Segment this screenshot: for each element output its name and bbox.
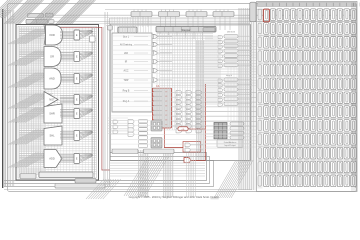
ALU carry box pair — [20, 174, 36, 179]
wire bundle diagonal top-left 1 — [4, 0, 28, 24]
flag block upper — [151, 121, 162, 132]
svg-text:XOR: XOR — [49, 33, 55, 37]
bus loop bottom lines — [4, 180, 206, 182]
ALU SHL unit — [8, 126, 93, 145]
stepper reset box — [203, 28, 215, 32]
control row TMP — [123, 78, 172, 82]
svg-text:IAR: IAR — [124, 52, 128, 55]
wire from box B to right edge — [53, 14, 352, 16]
svg-text:Copyright © 2005 - 2016 by Sie: Copyright © 2005 - 2016 by Siegbert Filb… — [129, 195, 220, 199]
control row Reg A — [123, 99, 172, 103]
wide capsule register lower-left A — [112, 149, 138, 154]
svg-text:Data/Address: Data/Address — [224, 141, 237, 144]
wire ribbon band bottom 1 — [138, 150, 149, 197]
data address label box — [217, 140, 243, 148]
ALU enclosure — [16, 25, 99, 181]
ALU inner border — [18, 27, 97, 179]
svg-text:OR: OR — [50, 55, 54, 59]
wire bundle diagonal far corner — [0, 0, 8, 18]
svg-text:Reg A: Reg A — [123, 100, 130, 103]
svg-text:ADD: ADD — [49, 157, 55, 161]
gate cluster inside red box — [185, 143, 203, 152]
wire ribbon band right upper — [206, 36, 220, 105]
highlighted clock wire horizontal red — [191, 160, 205, 162]
highlighted enable gate red — [184, 158, 190, 163]
ALU bottom bus bar — [55, 184, 105, 189]
register bus-one attach box — [49, 20, 55, 24]
control section vertical wires top — [111, 17, 113, 33]
svg-text:Reg B: Reg B — [123, 90, 130, 93]
bus wires between ALU and control — [102, 27, 104, 180]
stepper output wires — [159, 32, 161, 34]
ALU XOR unit — [8, 25, 93, 45]
wire bundle diagonal top-left 2 — [30, 0, 54, 24]
ALU ADD unit — [8, 150, 93, 168]
control matrix keypad grid — [214, 123, 227, 140]
wire bundle below ALU diagonal — [86, 179, 104, 199]
RAM row decoder strip — [258, 8, 263, 189]
gate cluster lower-left OR column — [113, 120, 134, 137]
ALU left plaid dense horizontals — [19, 27, 46, 29]
control section horizontal wires lower — [205, 129, 256, 131]
wire ribbon band bottom 2 — [163, 150, 174, 197]
RAM right edge shade column — [351, 3, 356, 191]
highlighted CLK capsule red — [178, 127, 188, 131]
RAM address register capsule — [250, 2, 256, 22]
ALU output register bar — [39, 172, 93, 178]
svg-text:IR: IR — [125, 61, 128, 64]
ALU right bus vertical wires — [91, 27, 93, 178]
control section outer border — [110, 24, 250, 160]
control row Bus 1 — [123, 34, 172, 38]
ALU SHR unit — [8, 104, 93, 123]
right edge verticals — [352, 12, 354, 186]
control area faint horizontal texture — [111, 35, 250, 37]
control right capsules vertical wires — [227, 66, 229, 122]
verticals right of ALU — [104, 12, 106, 186]
control row ACC — [123, 68, 172, 72]
control row IAR — [124, 51, 172, 55]
highlighted clock wire vertical red — [204, 84, 206, 161]
bus loop horizontal joins — [110, 152, 206, 154]
svg-text:NOT: NOT — [49, 98, 55, 102]
wire bundle diagonal bottom-middle — [124, 156, 148, 196]
highlighted decoder-to-cluster wire red — [164, 129, 183, 148]
latch column lower-left — [139, 120, 148, 148]
left margin bus verticals — [3, 10, 5, 186]
lower-left horizontal wires — [108, 117, 128, 119]
outer frame border — [8, 4, 357, 192]
svg-text:Stepper: Stepper — [181, 28, 190, 32]
wide capsule register lower-left B — [144, 149, 175, 154]
wire ribbon band control-to-RAM — [196, 40, 205, 160]
wire ribbon band bottom 3 — [187, 153, 196, 197]
wires along top band — [27, 17, 250, 19]
ALU AND unit — [8, 68, 93, 89]
svg-text:SHL: SHL — [49, 134, 55, 138]
enable-set control capsule column upper — [218, 32, 252, 68]
wire from bus-one capsule to right edge — [54, 21, 352, 23]
wire bundle diagonal bottom-right of control — [214, 160, 236, 198]
highlighted wire CLK to bus red — [188, 128, 205, 130]
svg-text:DB BUS: DB BUS — [227, 32, 236, 34]
control section horizontal wires — [160, 40, 256, 42]
control top bus wire — [105, 9, 352, 11]
system bus left inner line — [5, 11, 7, 186]
register bus-one capsule — [26, 19, 48, 23]
ALU gate-column faint verticals — [44, 27, 46, 177]
ALU bus label box — [75, 179, 96, 184]
control row All Draining — [120, 42, 172, 46]
control top flag capsules — [131, 10, 152, 28]
ALU OR unit — [8, 47, 93, 67]
corner junction box — [108, 26, 113, 31]
RAM enclosure — [257, 2, 358, 192]
highlighted gate cluster box red — [183, 142, 201, 153]
bottom horizontal bus lines — [110, 162, 205, 164]
system bus left vertical segment — [2, 9, 4, 188]
svg-text:SHR: SHR — [49, 112, 55, 116]
svg-text:Input/Output: Input/Output — [224, 144, 236, 147]
wire ribbon vertical band left of RAM — [238, 8, 256, 190]
RAM column header strip — [258, 3, 360, 7]
control section register-list enclosure — [112, 33, 152, 112]
decoder matrix wires — [157, 33, 256, 130]
ALU zero-detector box — [90, 36, 96, 42]
svg-text:AND: AND — [49, 77, 55, 81]
RAM cell grid — [258, 9, 357, 187]
wire bundle diagonal top-left 3 — [56, 0, 80, 24]
control row IR — [125, 59, 172, 63]
svg-text:TMP: TMP — [123, 79, 128, 82]
ALU NOT unit — [8, 92, 93, 109]
register TMP box B — [46, 13, 54, 17]
register TMP box A — [28, 14, 44, 18]
instruction decoder 3x8 highlighted red — [152, 85, 171, 128]
stepper unit — [156, 27, 216, 33]
svg-text:ACC: ACC — [123, 70, 128, 73]
decoder output AND-gate matrix — [176, 91, 202, 133]
ALU highlighted carry wire red — [55, 27, 110, 170]
clock unit box — [118, 27, 137, 33]
bus loop right-of-control verticals — [206, 152, 208, 181]
enable-set control capsule column lower — [230, 122, 244, 139]
svg-text:All Draining: All Draining — [120, 44, 133, 47]
wires ALU top to control — [106, 25, 250, 27]
flag block lower — [151, 138, 162, 149]
RAM selected cell 0 highlight red — [263, 9, 269, 22]
control row Reg B — [123, 88, 172, 92]
ALU horizontal wire texture — [19, 28, 97, 30]
enable-set control capsule column middle — [218, 75, 252, 106]
svg-text:Reg B: Reg B — [226, 75, 233, 77]
ALU input bus vertical wires — [18, 27, 20, 177]
